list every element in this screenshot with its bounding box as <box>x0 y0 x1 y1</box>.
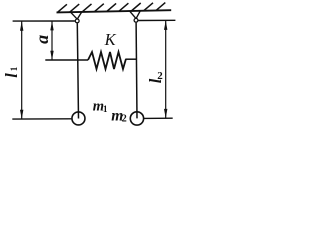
dimension l2 arrowheads <box>164 21 167 30</box>
pivot hanger right (V support) <box>130 11 141 18</box>
ref line top right <box>138 19 175 21</box>
ceiling hatching <box>58 3 166 13</box>
mass m2 ball <box>130 112 143 125</box>
svg-text:2: 2 <box>157 70 163 82</box>
pivot ring right <box>134 18 138 22</box>
ref line bottom left <box>12 118 71 120</box>
svg-text:2: 2 <box>122 114 127 125</box>
svg-text:1: 1 <box>103 104 108 114</box>
mass m1 ball <box>72 112 85 125</box>
spring right lead <box>126 58 136 60</box>
svg-text:K: K <box>104 30 117 49</box>
spring K zigzag <box>88 52 126 69</box>
ceiling line <box>57 10 172 12</box>
ref line bottom right <box>144 117 173 119</box>
ref line top left <box>13 20 75 22</box>
pivot hanger left (V support) <box>71 12 82 19</box>
svg-text:l: l <box>2 73 21 78</box>
dimension a arrowheads <box>50 21 53 30</box>
pivot ring left <box>75 19 79 23</box>
string left pendulum <box>77 23 78 118</box>
dimension l1 line <box>21 22 23 120</box>
string right pendulum <box>135 23 138 119</box>
svg-text:1: 1 <box>9 66 19 71</box>
svg-text:a: a <box>32 35 52 44</box>
dimension l1 arrowheads <box>20 21 23 30</box>
spring link line (a reference + left lead) <box>45 59 88 61</box>
dimension a line <box>51 22 53 60</box>
dimension l2 line <box>165 21 167 119</box>
